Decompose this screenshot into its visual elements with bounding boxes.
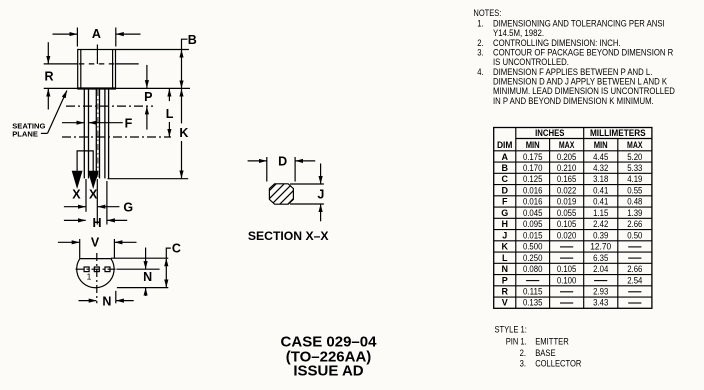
svg-text:0.48: 0.48: [627, 197, 642, 207]
svg-text:0.205: 0.205: [557, 152, 577, 162]
svg-text:0.250: 0.250: [523, 253, 543, 263]
svg-text:L: L: [166, 107, 174, 121]
svg-text:0.045: 0.045: [523, 208, 543, 218]
svg-text:DIMENSIONING AND TOLERANCING P: DIMENSIONING AND TOLERANCING PER ANSI: [493, 19, 665, 29]
svg-text:0.39: 0.39: [593, 230, 608, 240]
svg-text:0.210: 0.210: [557, 163, 577, 173]
svg-text:0.50: 0.50: [627, 230, 642, 240]
svg-text:MILLIMETERS: MILLIMETERS: [590, 128, 646, 138]
svg-text:P: P: [502, 275, 508, 285]
svg-text:0.015: 0.015: [523, 230, 543, 240]
svg-text:F: F: [125, 116, 133, 130]
svg-text:X: X: [89, 188, 98, 202]
svg-text:0.100: 0.100: [557, 275, 577, 285]
svg-text:H: H: [501, 219, 508, 229]
svg-text:MIN: MIN: [526, 140, 540, 150]
svg-text:J: J: [317, 188, 324, 202]
svg-text:2.66: 2.66: [627, 264, 642, 274]
svg-text:D: D: [501, 186, 508, 196]
svg-text:NOTES:: NOTES:: [473, 8, 501, 18]
svg-text:BASE: BASE: [535, 348, 555, 358]
svg-text:4.45: 4.45: [593, 152, 608, 162]
svg-text:SECTION X–X: SECTION X–X: [248, 229, 329, 243]
svg-text:2.: 2.: [477, 38, 483, 48]
svg-text:DIMENSION F APPLIES BETWEEN P: DIMENSION F APPLIES BETWEEN P AND L.: [493, 67, 652, 77]
svg-text:0.020: 0.020: [557, 230, 577, 240]
svg-text:CONTOUR OF PACKAGE BEYOND DIME: CONTOUR OF PACKAGE BEYOND DIMENSION R: [493, 48, 674, 58]
svg-text:J: J: [502, 230, 507, 240]
svg-text:K: K: [179, 126, 188, 140]
svg-text:INCHES: INCHES: [535, 128, 564, 138]
svg-text:4.32: 4.32: [593, 163, 608, 173]
svg-text:MIN: MIN: [594, 140, 608, 150]
svg-text:N: N: [143, 270, 152, 284]
svg-text:K: K: [501, 242, 508, 252]
svg-text:R: R: [501, 287, 508, 297]
svg-text:2.04: 2.04: [593, 264, 608, 274]
svg-text:0.165: 0.165: [557, 174, 577, 184]
svg-text:A: A: [501, 152, 508, 162]
svg-text:CONTROLLING DIMENSION: INCH.: CONTROLLING DIMENSION: INCH.: [493, 38, 621, 48]
svg-text:P: P: [144, 90, 152, 104]
svg-text:MAX: MAX: [627, 140, 643, 150]
svg-text:12.70: 12.70: [590, 242, 611, 252]
svg-text:3.: 3.: [477, 48, 483, 58]
svg-text:IS UNCONTROLLED.: IS UNCONTROLLED.: [493, 57, 569, 67]
svg-text:C: C: [501, 174, 508, 184]
svg-text:ISSUE AD: ISSUE AD: [293, 362, 363, 379]
svg-text:0.016: 0.016: [523, 186, 543, 196]
svg-text:0.016: 0.016: [523, 197, 543, 207]
svg-text:EMITTER: EMITTER: [535, 336, 569, 346]
svg-text:1.15: 1.15: [593, 208, 608, 218]
svg-text:0.170: 0.170: [523, 163, 543, 173]
svg-text:0.095: 0.095: [523, 219, 543, 229]
svg-text:G: G: [123, 200, 133, 214]
svg-text:IN P AND BEYOND DIMENSION K MI: IN P AND BEYOND DIMENSION K MINIMUM.: [493, 96, 654, 106]
svg-text:DIM: DIM: [497, 140, 513, 150]
svg-text:4.19: 4.19: [627, 174, 642, 184]
svg-text:2.54: 2.54: [627, 275, 642, 285]
svg-text:2.42: 2.42: [593, 219, 608, 229]
svg-text:V: V: [502, 298, 508, 308]
svg-text:1.: 1.: [477, 19, 483, 29]
svg-text:B: B: [188, 33, 197, 47]
svg-text:F: F: [502, 197, 508, 207]
svg-text:0.135: 0.135: [523, 298, 543, 308]
svg-text:1: 1: [87, 271, 92, 281]
svg-text:A: A: [92, 27, 101, 41]
svg-text:0.019: 0.019: [557, 197, 577, 207]
svg-text:5.20: 5.20: [627, 152, 642, 162]
svg-text:6.35: 6.35: [593, 253, 608, 263]
svg-text:D: D: [278, 154, 287, 168]
svg-text:DIMENSION D AND J APPLY BETWEE: DIMENSION D AND J APPLY BETWEEN L AND K: [493, 77, 667, 87]
svg-text:2.: 2.: [520, 348, 526, 358]
svg-text:0.41: 0.41: [593, 197, 608, 207]
svg-text:COLLECTOR: COLLECTOR: [535, 359, 582, 369]
svg-text:N: N: [501, 264, 508, 274]
svg-text:3.43: 3.43: [593, 298, 608, 308]
svg-text:2.66: 2.66: [627, 219, 642, 229]
svg-text:B: B: [501, 163, 508, 173]
svg-text:C: C: [172, 242, 181, 256]
svg-text:5.33: 5.33: [627, 163, 642, 173]
svg-text:N: N: [102, 294, 111, 308]
svg-text:STYLE 1:: STYLE 1:: [495, 325, 527, 335]
svg-text:MAX: MAX: [559, 140, 575, 150]
svg-text:Y14.5M, 1982.: Y14.5M, 1982.: [493, 28, 544, 38]
svg-text:3.18: 3.18: [593, 174, 608, 184]
svg-text:0.175: 0.175: [523, 152, 543, 162]
svg-text:0.55: 0.55: [627, 186, 642, 196]
svg-text:0.125: 0.125: [523, 174, 543, 184]
svg-text:PLANE: PLANE: [12, 130, 38, 139]
svg-text:PIN 1.: PIN 1.: [506, 336, 527, 346]
svg-text:0.022: 0.022: [557, 186, 577, 196]
svg-text:X: X: [72, 188, 81, 202]
svg-text:0.105: 0.105: [557, 219, 577, 229]
svg-text:0.055: 0.055: [557, 208, 577, 218]
svg-text:R: R: [44, 70, 53, 84]
svg-text:G: G: [501, 208, 508, 218]
svg-text:V: V: [91, 235, 100, 249]
svg-text:MINIMUM. LEAD DIMENSION IS UNC: MINIMUM. LEAD DIMENSION IS UNCONTROLLED: [493, 86, 675, 96]
svg-text:L: L: [502, 253, 508, 263]
svg-text:0.115: 0.115: [523, 287, 543, 297]
svg-text:0.41: 0.41: [593, 186, 608, 196]
svg-text:0.105: 0.105: [557, 264, 577, 274]
svg-text:H: H: [92, 216, 101, 230]
svg-text:4.: 4.: [477, 67, 483, 77]
svg-text:2.93: 2.93: [593, 287, 608, 297]
svg-text:1.39: 1.39: [627, 208, 642, 218]
svg-text:3.: 3.: [520, 359, 526, 369]
svg-text:0.500: 0.500: [523, 242, 543, 252]
svg-text:0.080: 0.080: [523, 264, 543, 274]
